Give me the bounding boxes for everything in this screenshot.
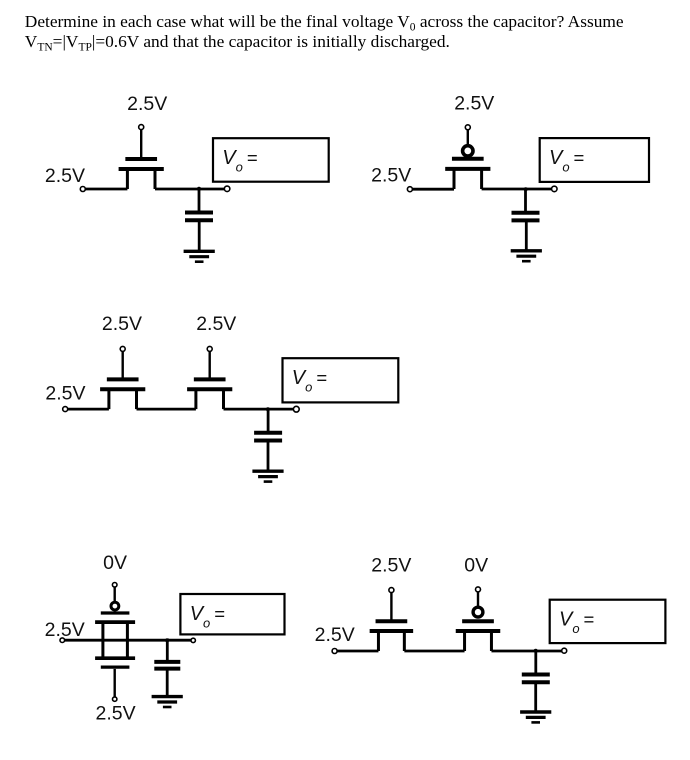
wire (node to capacitor C1 top plate) <box>198 189 201 212</box>
answer box circuit 4 <box>180 594 284 634</box>
capacitor C2 <box>512 213 540 221</box>
terminal (output Vo, circuit 5) <box>562 648 567 653</box>
ground <box>511 251 542 261</box>
svg-text:0V: 0V <box>464 555 488 577</box>
wire (gate lead of M4) <box>208 351 210 378</box>
wire (capacitor C2 bottom plate to ground) <box>525 221 528 250</box>
svg-text:2.5V: 2.5V <box>45 382 85 404</box>
answer box circuit 5 <box>550 600 666 643</box>
terminal (output Vo, circuit 1) <box>224 186 230 192</box>
terminal (PMOS gate, circuit 4) <box>112 583 117 588</box>
wire (input to M5 source) <box>337 650 378 653</box>
ground <box>152 697 183 707</box>
wire (gate lead of M1) <box>140 130 142 158</box>
wire (gate lead of M6) <box>477 592 479 607</box>
wire (node to capacitor C2 top plate) <box>524 189 527 212</box>
wire (capacitor C3 bottom plate to ground) <box>267 442 270 472</box>
terminal (output Vo, circuit 4) <box>191 638 195 642</box>
capacitor C3 <box>254 433 282 441</box>
terminal (NMOS gate, circuit 4) <box>113 697 117 701</box>
terminal (input, circuit 2) <box>407 187 412 192</box>
wire (M5 drain to M6 source) <box>404 650 464 653</box>
node (output junction, circuit 1) <box>197 187 201 191</box>
terminal (gate of M5) <box>389 588 394 593</box>
terminal (gate of M4) <box>207 346 212 351</box>
node (output junction, circuit 2) <box>524 187 528 191</box>
wire (input to M1 source) <box>85 188 127 191</box>
transistor M5 (NMOS) <box>370 621 414 651</box>
capacitor C1 <box>185 213 213 221</box>
answer box circuit 2 <box>540 138 649 182</box>
transistor M6 (PMOS) <box>456 621 501 651</box>
wire (capacitor C1 bottom plate to ground) <box>198 221 201 251</box>
wire (input to M2 source) <box>412 188 454 191</box>
wire (capacitor C4 bottom plate to ground) <box>166 670 169 697</box>
inversion bubble (PMOS gate, circuit 4) <box>111 602 119 610</box>
svg-text:2.5V: 2.5V <box>454 93 494 115</box>
terminal (gate of M2) <box>465 125 470 130</box>
wire (capacitor C5 bottom plate to ground) <box>534 683 537 712</box>
svg-text:2.5V: 2.5V <box>127 93 167 115</box>
node (output junction, circuit 4) <box>165 638 169 642</box>
wire (M3 drain to M4 source) <box>137 408 196 411</box>
wire (node to capacitor C4 top plate) <box>166 638 169 661</box>
capacitor C4 <box>154 662 180 669</box>
node (output junction, circuit 3) <box>266 407 270 411</box>
svg-text:2.5V: 2.5V <box>45 165 85 187</box>
problem statement text <box>25 12 685 52</box>
wire (input to M3 source) <box>68 408 109 411</box>
ground <box>252 471 283 481</box>
answer box circuit 3 <box>283 358 399 402</box>
wire (gate lead of M2) <box>467 130 469 146</box>
answer box circuit 1 <box>213 138 329 182</box>
transistor M4 (NMOS) <box>187 379 232 409</box>
svg-text:2.5V: 2.5V <box>371 555 411 577</box>
svg-text:2.5V: 2.5V <box>45 619 85 641</box>
wire (PMOS gate lead, circuit 4) <box>113 587 115 602</box>
svg-text:2.5V: 2.5V <box>96 702 136 724</box>
terminal (input, circuit 5) <box>332 649 337 654</box>
wire (M1 drain to output node) <box>155 188 224 191</box>
wire (NMOS gate lead, circuit 4) <box>113 669 115 697</box>
terminal (gate of M1) <box>139 125 144 130</box>
wire (input through TG1 to output node) <box>65 639 191 642</box>
transistor M1 (NMOS) <box>119 159 164 189</box>
wire (M6 drain to output node) <box>491 650 561 653</box>
svg-text:2.5V: 2.5V <box>315 624 355 646</box>
wire (gate lead of M3) <box>121 351 123 378</box>
svg-text:2.5V: 2.5V <box>102 313 142 335</box>
capacitor C5 <box>522 675 550 683</box>
terminal (input, circuit 3) <box>63 407 68 412</box>
wire (M2 drain to output node) <box>482 188 552 191</box>
ground <box>520 712 551 722</box>
transmission gate TG1 (PMOS top / NMOS bottom) <box>95 613 135 667</box>
svg-text:2.5V: 2.5V <box>371 165 411 187</box>
inversion bubble (gate of M2) <box>463 146 473 156</box>
wire (node to capacitor C5 top plate) <box>534 651 537 674</box>
terminal (gate of M3) <box>120 346 125 351</box>
ground <box>184 251 215 261</box>
terminal (gate of M6) <box>476 587 481 592</box>
terminal (input, circuit 1) <box>80 187 85 192</box>
terminal (output Vo, circuit 3) <box>293 406 299 412</box>
transistor M2 (PMOS) <box>445 159 490 189</box>
wire (gate lead of M5) <box>390 593 392 620</box>
terminal (input, circuit 4) <box>60 638 65 643</box>
svg-text:0V: 0V <box>103 552 127 574</box>
terminal (output Vo, circuit 2) <box>552 186 558 192</box>
node (output junction, circuit 5) <box>534 649 538 653</box>
wire (M4 drain to output node) <box>224 408 294 411</box>
transistor M3 (NMOS) <box>100 379 145 409</box>
svg-text:2.5V: 2.5V <box>196 313 236 335</box>
inversion bubble (gate of M6) <box>473 607 483 617</box>
wire (node to capacitor C3 top plate) <box>267 409 270 432</box>
